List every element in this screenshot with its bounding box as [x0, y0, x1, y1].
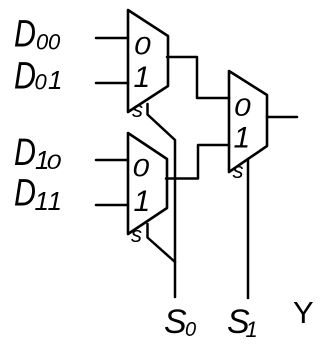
- svg-text:0: 0: [134, 32, 151, 60]
- svg-text:s: s: [131, 222, 142, 247]
- svg-text:1: 1: [48, 186, 62, 216]
- svg-text:0: 0: [47, 150, 62, 174]
- svg-text:0: 0: [133, 154, 150, 182]
- svg-text:1: 1: [48, 65, 62, 95]
- svg-text:D: D: [14, 132, 36, 174]
- svg-text:0: 0: [234, 93, 251, 121]
- svg-text:D: D: [14, 172, 36, 214]
- svg-text:D: D: [14, 13, 36, 55]
- svg-text:1: 1: [134, 61, 151, 94]
- svg-text:1: 1: [234, 122, 251, 155]
- svg-text:0: 0: [48, 30, 61, 55]
- svg-text:s: s: [233, 158, 244, 183]
- svg-text:s: s: [132, 97, 143, 122]
- svg-text:1: 1: [134, 185, 151, 218]
- svg-text:0: 0: [185, 319, 196, 341]
- svg-text:Y: Y: [293, 295, 314, 330]
- svg-text:S: S: [164, 303, 187, 341]
- svg-text:0: 0: [35, 70, 48, 95]
- svg-text:1: 1: [246, 317, 258, 342]
- svg-text:D: D: [14, 55, 36, 97]
